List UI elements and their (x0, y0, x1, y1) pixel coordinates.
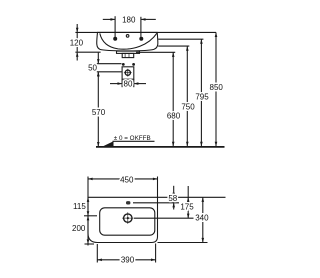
svg-text:570: 570 (92, 108, 106, 117)
dimension 570 line (97, 72, 99, 147)
basin rear view outline (97, 32, 158, 51)
svg-text:175: 175 (180, 202, 194, 211)
svg-text:50: 50 (88, 64, 97, 73)
overflow extension line (133, 202, 179, 204)
dimension 850 (215, 32, 217, 146)
plan view tap hole (124, 214, 132, 222)
svg-text:850: 850 (210, 83, 224, 92)
tap hole left (rear view) (113, 37, 117, 41)
svg-text:390: 390 (121, 256, 135, 265)
svg-text:± 0 = OKFFB: ± 0 = OKFFB (114, 135, 151, 142)
svg-text:795: 795 (195, 92, 209, 101)
svg-text:450: 450 (120, 176, 134, 185)
dimension 795 (158, 38, 203, 40)
plan view bowl (100, 208, 155, 235)
tap hole extension line (134, 217, 194, 219)
plan view overflow slot (126, 201, 130, 204)
dimension 180 line left (103, 18, 115, 20)
supply connection dot right (132, 63, 135, 66)
dimension 58 (173, 186, 175, 203)
dimension 50 lower extension line (97, 71, 122, 73)
wall top line with 850 extension (75, 31, 216, 33)
svg-text:340: 340 (195, 214, 209, 223)
drain connection square (122, 67, 134, 79)
dimension 750 (158, 45, 189, 47)
bottom edge extension right (158, 242, 208, 244)
svg-text:750: 750 (181, 102, 195, 111)
svg-text:120: 120 (70, 38, 84, 47)
svg-text:200: 200 (72, 224, 86, 233)
dimension 390 (96, 244, 98, 263)
supply connection dot left (122, 63, 125, 66)
svg-text:58: 58 (168, 194, 177, 203)
dimension 120 lower extension line (75, 51, 100, 53)
tap hole right (rear view) (139, 37, 143, 41)
basin inner bowl arc (100, 33, 157, 49)
svg-text:680: 680 (167, 112, 181, 121)
dimension 115 and 200 line (87, 197, 89, 245)
dimension 180 extension lines (114, 16, 116, 37)
dimension 50 upper extension line (97, 63, 122, 65)
dimension 80 extension lines (121, 79, 123, 87)
dimension 340 (202, 197, 204, 242)
svg-text:115: 115 (73, 202, 86, 211)
dimension 680 (136, 51, 175, 53)
svg-text:180: 180 (122, 15, 136, 24)
dimension 450 (87, 177, 89, 198)
floor line (96, 146, 225, 148)
dimension 50 arrows (97, 53, 99, 64)
dimension 175 (187, 186, 189, 218)
svg-text:80: 80 (124, 80, 133, 89)
dimension 180 line right (141, 18, 155, 20)
floor level symbol (113, 140, 155, 142)
dimension 80 arrows (110, 83, 122, 85)
dimension 120 line (76, 24, 78, 32)
drain flange bar (117, 51, 140, 53)
top edge extension right (158, 196, 226, 198)
drain outlet box (122, 53, 134, 57)
plan view outer outline (88, 197, 158, 242)
drain connection crosshair (125, 70, 130, 75)
overflow hole (rear view) (126, 35, 129, 38)
